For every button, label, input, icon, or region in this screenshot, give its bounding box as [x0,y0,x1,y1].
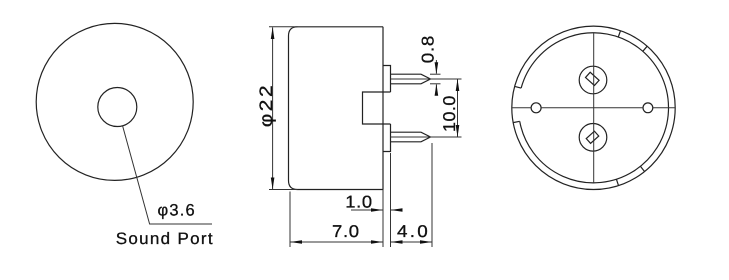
svg-text:1.0: 1.0 [345,192,372,211]
0.8 dimension line above [435,60,437,74]
radial notch line top-right 2 [643,46,647,51]
svg-text:10.0: 10.0 [440,95,459,132]
svg-text:φ3.6: φ3.6 [158,201,196,219]
leader line to sound port [123,126,212,224]
1.0 dimension line right part [391,209,402,211]
rear outer circle [512,26,675,189]
small hole left [531,103,541,113]
front view outer circle [36,23,193,180]
phi22 arrow down [271,178,275,190]
inner step rectangle [363,92,384,124]
radial gap line left upper [515,86,521,88]
1.0 dimension line left part [351,209,383,211]
0.8 top extension line [430,73,441,75]
pin tip extension down [431,143,433,247]
radial notch line bottom-right 2 [616,179,618,185]
rear vertical center line [593,33,595,183]
pin 2 [391,132,431,142]
pin cross-section upper [585,72,599,85]
7.0 arrow right [371,240,383,244]
svg-text:4.0: 4.0 [397,222,430,241]
0.8 arrow up [435,84,439,96]
4.0 arrow left [391,240,403,244]
svg-text:φ22: φ22 [256,83,276,127]
pin hole circle lower [579,124,607,152]
10.0 dimension line [457,80,459,137]
body outline [289,27,384,190]
1.0 arrow right [371,208,383,212]
radial notch line bottom-right 1 [640,166,644,171]
7.0 dimension line [291,241,383,243]
pin1 mid extension [391,78,462,80]
pin base block 2 [383,124,391,152]
pin cross-section lower [586,131,599,143]
phi22 dimension line [272,27,274,189]
sound port circle [98,88,137,127]
small hole right [643,103,653,113]
0.8 bottom extension line [430,83,441,85]
phi22 arrow up [271,27,275,39]
10.0 arrow down [456,125,460,137]
rear horizontal center line [512,107,675,109]
svg-text:Sound Port: Sound Port [116,230,214,248]
radial notch line top-right 1 [618,31,620,37]
right edge extension down [382,190,384,248]
rear inner circle with left gap [520,33,669,183]
0.8 arrow down [435,62,439,74]
body right edge [382,27,384,190]
svg-text:0.8: 0.8 [419,35,438,63]
phi22 bottom extension [269,189,298,191]
pin 1 [391,74,431,84]
side view body [289,27,431,190]
pin hole circle upper [579,66,607,94]
rear view [512,26,675,189]
pin2 mid extension [391,136,462,138]
7.0 arrow left [290,240,302,244]
svg-text:7.0: 7.0 [332,222,360,241]
phi22 top extension [269,26,298,28]
dimension + extension lines [269,27,462,247]
1.0 arrow left [391,208,403,212]
4.0 dimension line [391,241,432,243]
arrowheads [271,27,460,244]
0.8 dimension line below [435,85,437,93]
10.0 arrow up [456,79,460,91]
7.0 left extension [289,192,291,248]
radial gap line left lower [513,121,520,122]
pin base extension down [390,153,392,247]
pin base block 1 [383,66,391,93]
4.0 arrow right [420,240,432,244]
